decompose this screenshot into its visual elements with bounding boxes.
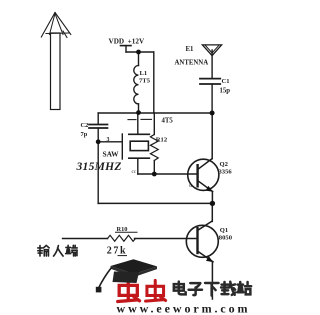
svg-text:R10: R10 [117,226,128,233]
svg-text:15p: 15p [220,88,231,95]
svg-text:27k: 27k [107,246,127,257]
svg-text:315MHZ: 315MHZ [76,161,122,173]
svg-text:www.eeworm.com: www.eeworm.com [117,302,251,315]
svg-text:Q1: Q1 [220,227,228,234]
svg-text:u: u [189,183,192,189]
svg-text:VDD +12V: VDD +12V [109,38,145,46]
svg-text:C2: C2 [81,122,89,129]
svg-text:3: 3 [107,137,110,143]
svg-text:SAW: SAW [103,150,120,159]
svg-text:L1: L1 [140,70,148,77]
svg-text:Q2: Q2 [220,161,229,168]
svg-text:cc: cc [132,170,137,175]
svg-text:R12: R12 [156,137,168,144]
svg-text:7p: 7p [81,131,88,138]
svg-text:ANTENNA: ANTENNA [175,60,209,67]
svg-text:E1: E1 [186,46,195,53]
svg-text:7T5: 7T5 [139,78,151,85]
svg-text:C1: C1 [222,78,230,85]
svg-text:3356: 3356 [219,169,233,176]
svg-text:4T5: 4T5 [162,118,174,125]
svg-text:8050: 8050 [219,235,233,242]
